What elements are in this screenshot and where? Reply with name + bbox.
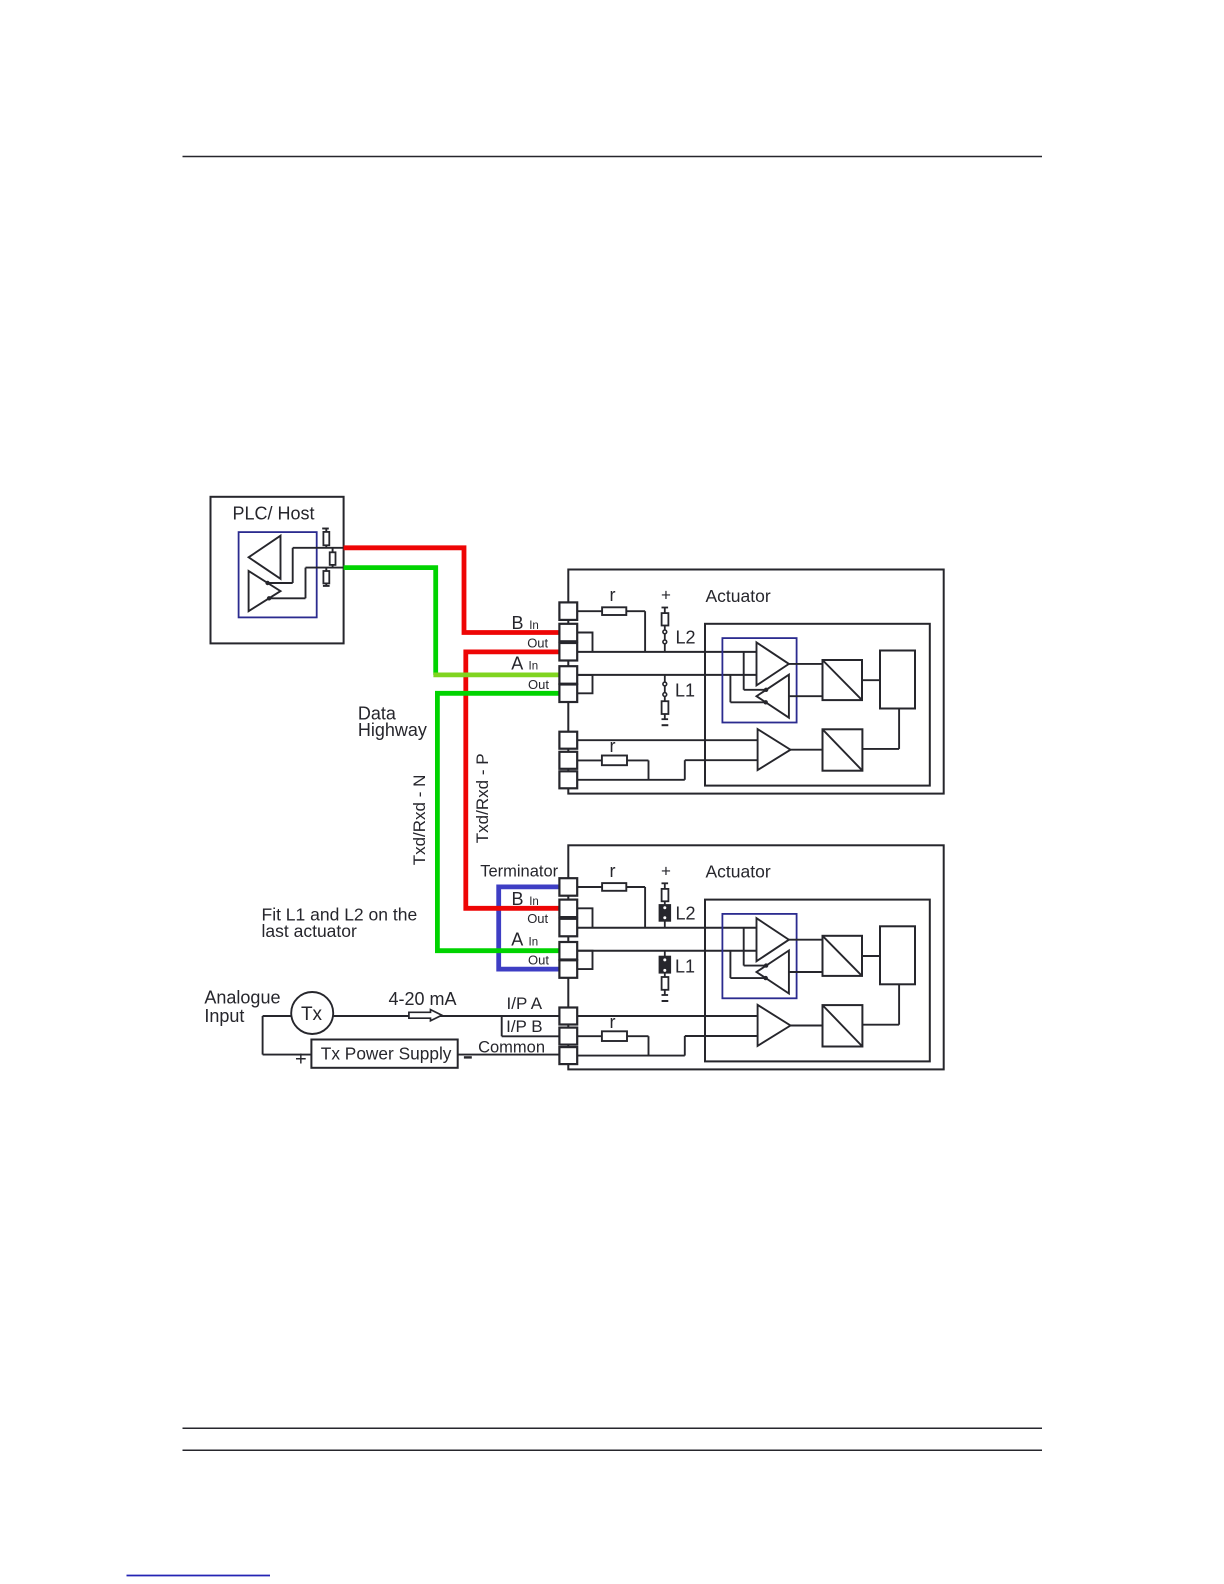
svg-text:Analogue: Analogue (204, 988, 280, 1008)
svg-text:Highway: Highway (358, 720, 427, 740)
svg-text:I/P A: I/P A (507, 994, 543, 1013)
svg-text:A: A (511, 654, 523, 674)
svg-text:Tx Power Supply: Tx Power Supply (321, 1044, 452, 1064)
svg-text:In: In (529, 661, 539, 673)
svg-text:last actuator: last actuator (262, 921, 357, 941)
svg-text:I/P B: I/P B (506, 1017, 543, 1036)
svg-text:B: B (512, 613, 524, 633)
svg-text:Txd/Rxd - N: Txd/Rxd - N (410, 775, 429, 866)
svg-text:+: + (295, 1048, 307, 1070)
svg-text:Terminator: Terminator (480, 862, 558, 880)
svg-text:4-20 mA: 4-20 mA (389, 989, 457, 1009)
svg-text:Input: Input (204, 1006, 244, 1026)
svg-text:Out: Out (527, 635, 548, 650)
svg-text:Out: Out (528, 677, 549, 692)
svg-text:In: In (529, 620, 539, 632)
svg-text:L2: L2 (676, 628, 696, 648)
svg-text:r: r (610, 736, 616, 756)
svg-text:L1: L1 (675, 681, 695, 701)
svg-text:Txd/Rxd - P: Txd/Rxd - P (473, 753, 492, 843)
svg-text:PLC/ Host: PLC/ Host (233, 504, 315, 524)
svg-text:Common: Common (478, 1038, 545, 1056)
svg-text:Tx: Tx (301, 1004, 323, 1025)
svg-text:Actuator: Actuator (706, 586, 771, 606)
svg-text:r: r (610, 585, 616, 605)
svg-text:+: + (661, 586, 671, 605)
